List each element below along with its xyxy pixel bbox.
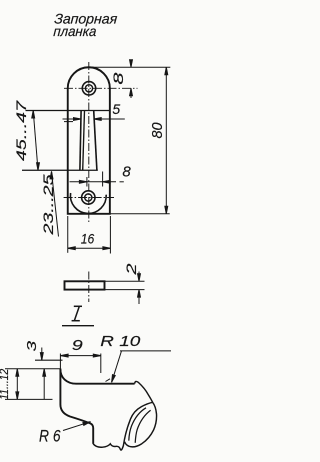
svg-text:9: 9 (72, 337, 84, 354)
svg-text:R 6: R 6 (39, 427, 61, 445)
svg-text:11...12: 11...12 (0, 369, 11, 400)
svg-text:45...47: 45...47 (14, 100, 29, 161)
svg-text:5: 5 (112, 101, 120, 117)
svg-text:R 10: R 10 (100, 334, 140, 350)
svg-text:23...25: 23...25 (41, 174, 56, 236)
svg-text:16: 16 (81, 231, 95, 247)
svg-text:8: 8 (110, 72, 126, 84)
svg-text:8: 8 (122, 163, 131, 180)
svg-text:3: 3 (25, 341, 39, 352)
svg-text:80: 80 (150, 123, 166, 139)
svg-text:2: 2 (123, 263, 139, 276)
svg-text:планка: планка (53, 23, 97, 39)
